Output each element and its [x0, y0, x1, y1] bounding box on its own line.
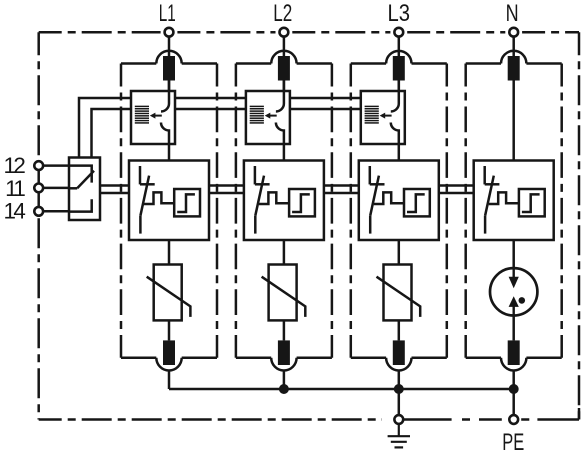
triggered spark gap unit N (box)	[474, 161, 554, 241]
wire bottom contact N to PE bus	[512, 371, 515, 390]
spark gap switch contact L2	[255, 166, 270, 234]
protection path L3: dashed module box left side	[350, 64, 353, 358]
trigger line (stepped) L2	[259, 192, 289, 204]
trigger circuit box N	[519, 189, 545, 216]
terminal L3 (circle on enclosure border)	[394, 28, 403, 37]
bottom plug-in terminal contact L3 (filled bar)	[393, 340, 405, 365]
changeover contact NO branch 14	[69, 199, 92, 211]
bottom plug-in terminal contact N (filled bar)	[508, 340, 520, 365]
varistor symbol diagonal L2	[262, 277, 306, 317]
wire top contact N to spark gap unit	[512, 81, 515, 161]
wire spark gap unit to varistor L2	[283, 240, 286, 265]
PE terminal (circle on enclosure border)	[509, 415, 518, 424]
monitoring bus lower: spark gap L2 to L3	[324, 192, 359, 195]
svg-text:12: 12	[3, 153, 25, 178]
wire L2 terminal to plug-in contact	[283, 37, 286, 57]
wire disconnector to spark gap unit L3	[398, 144, 401, 161]
top plug-in terminal contact L3 (filled bar)	[393, 56, 405, 81]
indication flag (striped block) in disconnector L2	[250, 106, 264, 123]
svg-text:L1: L1	[159, 0, 176, 27]
wire bottom contact L3 to PE bus	[398, 371, 401, 390]
monitoring bus lower: changeover box to spark gap L1	[100, 192, 129, 195]
signalling wire A riser from changeover box	[79, 98, 131, 158]
junction N on PE bus	[509, 384, 519, 394]
terminal L1 (circle on enclosure border)	[165, 28, 174, 37]
wire terminal 12 to changeover contact	[43, 164, 69, 167]
triggered spark gap unit L2 (box)	[244, 161, 324, 241]
thermal disconnecting device with status indication L1 (box)	[131, 91, 175, 144]
junction L2 on PE bus	[279, 384, 289, 394]
wire L3 terminal to plug-in contact	[398, 37, 401, 57]
wire disconnector to spark gap unit L2	[283, 144, 286, 161]
top plug-in terminal contact L2 (filled bar)	[278, 56, 290, 81]
triggered spark gap unit L3 (box)	[359, 161, 439, 241]
changeover contact common branch 11 with wiper	[69, 171, 94, 189]
wire spark gap unit to varistor L3	[398, 240, 401, 265]
disconnector contact upper hook L3	[391, 81, 399, 112]
svg-text:14: 14	[3, 199, 25, 224]
wire bottom contact L1 to PE bus	[168, 371, 171, 390]
signalling wire B riser from changeover box	[92, 109, 132, 158]
protection path L3: module box bottom edge with plug-in dome	[351, 358, 447, 371]
disconnector contact upper hook L2	[276, 81, 284, 112]
N-PE gap gas-filled indicator dot	[519, 297, 526, 304]
signalling wire A: disconnector L2 to L3	[290, 97, 361, 100]
changeover contact NC branch 12	[69, 166, 92, 183]
equipotential PE bus wire	[169, 388, 514, 391]
border link terminal 12 to 11	[37, 171, 40, 183]
wire disconnector to spark gap unit L1	[168, 144, 171, 161]
wire spark gap unit to varistor L1	[168, 240, 171, 265]
signalling wire B: disconnector L2 to L3	[290, 108, 361, 111]
protection path L3: dashed module box right side	[446, 64, 449, 358]
protection path L2: module box bottom edge with plug-in dome	[236, 358, 332, 371]
wire N terminal to plug-in contact	[512, 37, 515, 57]
thermal disconnecting device with status indication L3 (box)	[361, 91, 405, 144]
wire spark gap unit to gas discharge tube N	[512, 240, 515, 267]
border link terminal 11 to 14	[37, 193, 40, 206]
wire PE bus to PE terminal	[512, 389, 515, 415]
impulse waveform glyph L2	[292, 194, 310, 212]
earth terminal (circle on enclosure border)	[394, 415, 403, 424]
terminal N (circle on enclosure border)	[509, 28, 518, 37]
protection path L1: dashed module box right side	[216, 64, 219, 358]
indication flag (striped block) in disconnector L3	[365, 106, 379, 123]
terminal 11 (circle on enclosure border)	[34, 184, 43, 193]
wire bottom contact L2 to PE bus	[283, 371, 286, 390]
svg-text:11: 11	[5, 176, 25, 201]
varistor L1 (rectangle)	[154, 265, 182, 321]
wire varistor to bottom contact L1	[168, 320, 171, 340]
monitoring bus upper: spark gap L2 to L3	[324, 184, 359, 187]
protection path N: dashed module box right side	[560, 64, 563, 358]
wire top contact to thermal disconnector L3	[398, 81, 401, 92]
enclosure border right (dash-dot)	[578, 32, 581, 419]
varistor symbol diagonal L1	[147, 277, 191, 317]
protection path L3: module box top edge with plug-in dome	[351, 51, 447, 64]
triggered spark gap unit L1 (box)	[129, 161, 209, 241]
varistor L2 (rectangle)	[269, 265, 297, 321]
impulse waveform glyph L1	[177, 194, 195, 212]
protection path L2: dashed module box right side	[331, 64, 334, 358]
wire terminal 14 to changeover contact	[43, 210, 69, 213]
wire varistor to bottom contact L3	[398, 320, 401, 340]
N-PE gap lower electrode arrow	[509, 296, 519, 315]
bottom plug-in terminal contact L2 (filled bar)	[278, 340, 290, 365]
enclosure border bottom (dash-dot), interrupted by earth and PE terminals	[39, 418, 579, 421]
earth (ground) symbol	[388, 424, 410, 447]
disconnector contact upper hook L1	[161, 81, 169, 112]
wire gas discharge tube to bottom contact N	[512, 316, 515, 341]
trigger line (stepped) L1	[144, 192, 174, 204]
spark gap switch contact L1	[140, 166, 155, 234]
disconnector contact lower hook L2	[276, 123, 284, 145]
wire terminal 11 to changeover contact	[43, 187, 69, 190]
protection path L1: module box bottom edge with plug-in dome	[121, 358, 217, 371]
protection path L2: module box top edge with plug-in dome	[236, 51, 332, 64]
protection path N: module box top edge with plug-in dome	[466, 51, 562, 64]
monitoring bus upper: spark gap L1 to L2	[209, 184, 244, 187]
monitoring bus upper: spark gap L3 to N unit	[439, 184, 474, 187]
terminal 12 (circle on enclosure border)	[34, 161, 43, 170]
signalling wire A: disconnector L1 to L2	[175, 97, 246, 100]
spark gap switch contact L3	[370, 166, 385, 234]
gas discharge tube / N-PE spark gap (circle)	[490, 268, 537, 315]
svg-text:N: N	[506, 0, 519, 27]
svg-text:PE: PE	[502, 429, 524, 456]
protection path L1: module box top edge with plug-in dome	[121, 51, 217, 64]
svg-text:L3: L3	[388, 0, 411, 27]
terminal L2 (circle on enclosure border)	[280, 28, 289, 37]
top plug-in terminal contact N (filled bar)	[508, 56, 520, 81]
disconnector contact lower hook L1	[161, 123, 169, 145]
trip direction arrow in disconnector L1	[150, 113, 162, 119]
top plug-in terminal contact L1 (filled bar)	[163, 56, 175, 81]
trigger line (stepped) L3	[374, 192, 404, 204]
disconnector contact lower hook L3	[391, 123, 399, 145]
protection path L2: dashed module box left side	[235, 64, 238, 358]
wire top contact to thermal disconnector L1	[168, 81, 171, 92]
indication flag (striped block) in disconnector L1	[135, 106, 149, 123]
junction L3 on PE bus	[394, 384, 404, 394]
enclosure border top (dash-dot), interrupted by terminals L1 L2 L3 N	[39, 31, 579, 34]
monitoring bus lower: spark gap L1 to L2	[209, 192, 244, 195]
protection path N: dashed module box left side	[464, 64, 467, 358]
trigger circuit box L2	[289, 189, 315, 216]
svg-text:L2: L2	[273, 0, 292, 27]
wire varistor to bottom contact L2	[283, 320, 286, 340]
wire L1 terminal to plug-in contact	[168, 37, 171, 57]
terminal 14 (circle on enclosure border)	[34, 207, 43, 216]
enclosure border left (dash-dot), interrupted by terminals 12 11 14	[37, 32, 40, 419]
monitoring bus upper: changeover box to spark gap L1	[100, 184, 129, 187]
impulse waveform glyph L3	[407, 194, 425, 212]
protection path L1: dashed module box left side	[120, 64, 123, 358]
spark gap switch contact N	[485, 166, 500, 234]
thermal disconnecting device with status indication L2 (box)	[246, 91, 290, 144]
protection path N: module box bottom edge with plug-in dome	[466, 358, 562, 371]
monitoring bus lower: spark gap L3 to N unit	[439, 192, 474, 195]
wire top contact to thermal disconnector L2	[283, 81, 286, 92]
impulse waveform glyph N	[522, 194, 540, 212]
varistor symbol diagonal L3	[377, 277, 421, 317]
trigger line (stepped) N	[489, 192, 519, 204]
bottom plug-in terminal contact L1 (filled bar)	[163, 340, 175, 365]
trigger circuit box L1	[174, 189, 200, 216]
signalling wire B: disconnector L1 to L2	[175, 108, 246, 111]
remote signalling changeover contact (box)	[69, 158, 100, 221]
trip direction arrow in disconnector L3	[380, 113, 392, 119]
wire PE bus to earth terminal	[398, 389, 401, 415]
N-PE gap upper electrode arrow	[509, 268, 519, 288]
varistor L3 (rectangle)	[384, 265, 412, 321]
trip direction arrow in disconnector L2	[265, 113, 277, 119]
trigger circuit box L3	[404, 189, 430, 216]
